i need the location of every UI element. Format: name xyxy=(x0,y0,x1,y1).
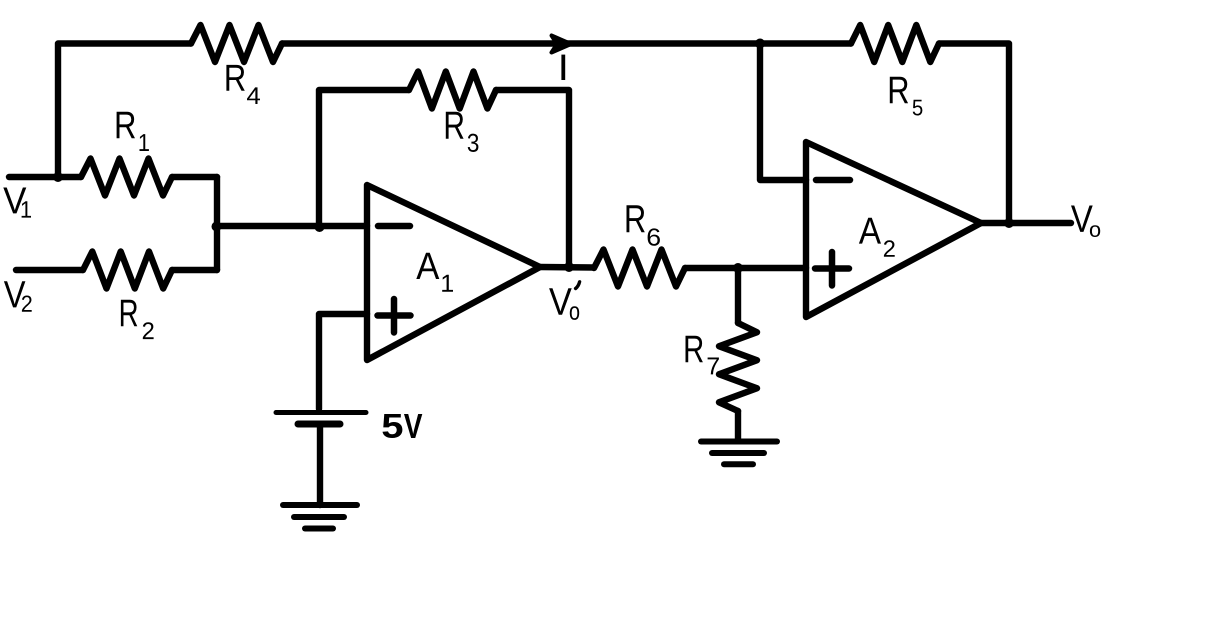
wire R3 loop left vertical xyxy=(319,90,409,226)
prime mark on Vo' xyxy=(576,282,580,289)
wire rail right corner down to output xyxy=(939,44,1009,224)
label R5 xyxy=(890,77,908,104)
wire A2 feedback vertical to inverting input xyxy=(760,44,806,181)
label Vo output xyxy=(1071,205,1093,231)
resistor R6 xyxy=(594,250,685,287)
label V1 xyxy=(3,188,26,214)
label R4 xyxy=(226,65,244,91)
node top rail / A2 feedback junction xyxy=(755,39,765,49)
current arrow I xyxy=(552,36,572,53)
wire V1 lead xyxy=(9,174,81,180)
resistor R5 xyxy=(851,25,939,62)
label V2 xyxy=(4,281,26,307)
node Vo junction xyxy=(1004,218,1014,228)
resistor R1 xyxy=(81,159,172,196)
resistor R3 xyxy=(409,72,496,109)
resistor R2 xyxy=(83,252,172,289)
label A2 xyxy=(859,218,881,244)
battery 5V short plate xyxy=(298,421,340,428)
op-amp A2 xyxy=(806,142,981,317)
node R3 left junction xyxy=(315,222,325,232)
wire summing node to A1 inverting input xyxy=(217,223,367,229)
wire R1 to summing node xyxy=(172,174,217,180)
A2 plus sign xyxy=(815,252,849,286)
A2 minus sign xyxy=(816,177,850,184)
wire summing node vertical xyxy=(214,177,220,270)
label A1 xyxy=(416,253,439,279)
label R7 xyxy=(686,336,703,362)
resistor R4 xyxy=(191,25,282,62)
wire left vertical + top rail to R4 xyxy=(58,44,191,178)
label R1 xyxy=(117,112,135,139)
label Vo' intermediate xyxy=(549,288,572,314)
wire top rail R4 to R5 xyxy=(282,40,851,46)
label 5V battery xyxy=(383,414,403,438)
wire A1 output to R6 xyxy=(540,264,594,271)
node summing junction xyxy=(212,222,222,232)
battery 5V long plate xyxy=(276,410,366,415)
ground under R7 xyxy=(701,442,777,465)
resistor R7 xyxy=(719,323,757,411)
node R7 junction xyxy=(733,263,743,273)
node Vo' junction xyxy=(564,262,574,272)
node V1 input junction xyxy=(53,172,63,182)
wire R7 to ground xyxy=(735,411,741,441)
A1 minus sign xyxy=(378,223,410,230)
label R6 xyxy=(626,205,644,232)
wire battery to ground xyxy=(317,427,323,505)
label R2 xyxy=(121,300,137,327)
wire R2 to summing node xyxy=(172,267,217,273)
wire V2 lead xyxy=(16,267,83,273)
wire A2 output to Vo xyxy=(981,220,1071,226)
label I current xyxy=(561,55,565,80)
ground under battery xyxy=(283,505,357,529)
label R3 xyxy=(446,112,464,139)
A1 plus sign xyxy=(378,299,411,333)
wire A1 non-inverting input to battery xyxy=(319,314,367,409)
wire R3 loop right vertical down to Vo' node xyxy=(496,90,569,267)
wire R6 to A2 non-inverting input xyxy=(685,265,806,271)
wire node to R7 xyxy=(735,268,741,323)
op-amp A1 xyxy=(367,185,540,360)
